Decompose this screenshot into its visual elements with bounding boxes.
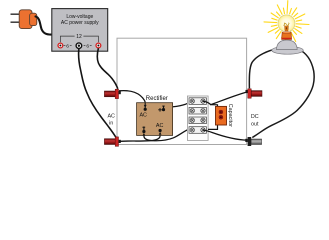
power supply terminal 6V left (red)	[58, 43, 63, 48]
rectifier terminal + top-right	[158, 106, 165, 112]
svg-text:6: 6	[66, 43, 69, 49]
svg-text:Rectifier: Rectifier	[146, 96, 168, 102]
connector nub lower AC-in post	[119, 140, 121, 143]
binding post: AC in upper (red)	[104, 89, 118, 98]
power supply terminal 6V right (red)	[96, 43, 101, 48]
connector nub DC-out minus post	[245, 139, 247, 142]
svg-text:DC: DC	[251, 114, 259, 120]
terminal strip screws row2	[190, 109, 205, 113]
wire: strip row4 right screw to DC-out minus post	[203, 130, 248, 140]
terminal strip screws row1	[190, 99, 205, 103]
svg-text:6: 6	[86, 43, 89, 49]
svg-text:AC: AC	[107, 114, 115, 120]
label 6-0-6 on power supply	[64, 43, 92, 49]
wire: mains cable plug to power supply	[36, 17, 53, 35]
svg-text:AC: AC	[156, 123, 164, 129]
svg-text:AC: AC	[139, 113, 147, 119]
connector nub upper AC-in post	[119, 91, 121, 94]
rectifier terminal AC top-left	[139, 105, 147, 119]
wire: lamp right lead to DC-out minus post	[252, 49, 314, 138]
label DC out	[251, 114, 259, 127]
power supply terminal 0V centre (black)	[76, 43, 82, 49]
wire: upper AC-in post to rectifier AC terminal (top-left)	[119, 91, 145, 109]
wire: 0V terminal to lower AC-in post	[79, 49, 116, 138]
label AC in	[107, 114, 115, 127]
svg-text:Capacitor: Capacitor	[227, 104, 233, 127]
binding post: AC in lower (red)	[104, 137, 118, 146]
rectifier U1	[137, 96, 173, 135]
svg-text:out: out	[251, 121, 259, 127]
binding post: DC out + (red)	[248, 89, 262, 98]
terminal strip screws row4	[190, 128, 205, 132]
breadboard / circuit board panel	[117, 38, 247, 144]
label Capacitor (vertical)	[227, 104, 233, 127]
svg-text:in: in	[109, 121, 113, 127]
capacitor C1	[216, 106, 227, 125]
connector nub DC-out + post	[246, 90, 248, 93]
low-voltage AC power supply PS1	[52, 9, 108, 52]
lamp rays (glow)	[264, 1, 309, 46]
wire: rectifier AC terminal (bottom-right) to lower AC-in post	[120, 131, 160, 142]
wire: 6V terminal to upper AC-in post	[97, 48, 118, 89]
terminal strip TS1	[187, 96, 208, 140]
svg-text:AC power supply: AC power supply	[61, 20, 99, 26]
label 12 V bracket on power supply	[60, 34, 98, 42]
wire: rectifier + terminal to terminal-strip row1 left screw	[164, 101, 193, 109]
wire: capacitor top lead	[211, 105, 218, 107]
binding post: DC out minus (grey)	[248, 137, 262, 146]
rectifier terminal AC bottom-right	[156, 123, 164, 135]
lamp socket collar (orange)	[282, 32, 292, 40]
rectifier terminal minus bottom-left	[142, 103, 145, 136]
wire: capacitor bottom lead	[208, 125, 218, 130]
mains plug P1	[11, 10, 37, 29]
wire: lamp left lead to DC-out + post	[249, 49, 278, 89]
lamp bulb glass	[278, 15, 295, 34]
lamp base (holder)	[272, 40, 304, 54]
terminal strip screws row3	[190, 118, 205, 122]
svg-text:12: 12	[76, 34, 82, 40]
wire: rectifier minus terminal to terminal-strip row4 left screw	[144, 129, 192, 141]
wire: strip row1 right screw to DC-out + post	[203, 92, 248, 105]
